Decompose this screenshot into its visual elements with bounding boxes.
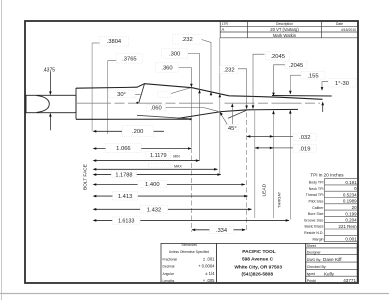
- svg-text:.334: .334: [216, 228, 228, 234]
- svg-text:BOLT FACE: BOLT FACE: [83, 164, 89, 190]
- svg-text:Checked By:: Checked By:: [307, 265, 327, 269]
- svg-text:1.400: 1.400: [145, 182, 160, 188]
- svg-text:.300: .300: [169, 52, 180, 58]
- svg-text:.2045: .2045: [289, 63, 304, 69]
- svg-text:A: A: [222, 27, 225, 32]
- svg-text:0.5234: 0.5234: [343, 192, 357, 197]
- svg-text:Description: Description: [276, 22, 293, 26]
- svg-text:.060: .060: [150, 106, 161, 112]
- svg-text:Sheet: Sheet: [307, 244, 316, 248]
- svg-text:Groove Size: Groove Size: [304, 218, 324, 222]
- svg-text:30°: 30°: [117, 92, 126, 98]
- svg-text:.3804: .3804: [107, 39, 122, 45]
- svg-text:.360: .360: [161, 65, 172, 71]
- svg-text:4/15/2010: 4/15/2010: [341, 28, 356, 32]
- svg-text:.232: .232: [181, 37, 192, 43]
- svg-text:.032: .032: [299, 135, 310, 141]
- svg-text:20 VT (Vartarg): 20 VT (Vartarg): [270, 27, 299, 32]
- svg-text:LEAD: LEAD: [262, 183, 268, 196]
- svg-text:Bore Size: Bore Size: [308, 212, 324, 216]
- svg-text:.232: .232: [223, 67, 234, 73]
- svg-text:1°-30: 1°-30: [335, 81, 349, 87]
- svg-text:Thread TPI: Thread TPI: [306, 193, 324, 197]
- svg-text:+ 0.0004: + 0.0004: [198, 264, 215, 269]
- svg-text:Unless Otherwise Specified: Unless Otherwise Specified: [169, 250, 209, 254]
- svg-text:0.1989: 0.1989: [343, 199, 357, 204]
- svg-text:± 1/4: ± 1/4: [205, 271, 215, 276]
- svg-text:1.1179: 1.1179: [150, 153, 167, 159]
- svg-text:.4375: .4375: [43, 67, 56, 73]
- svg-text:.155: .155: [307, 73, 318, 79]
- svg-text:Neck TPI: Neck TPI: [309, 187, 324, 191]
- svg-text:Caliber: Caliber: [312, 206, 324, 210]
- svg-text:0.191: 0.191: [345, 180, 357, 185]
- svg-text:Date: Date: [336, 22, 343, 26]
- svg-text:Fractional: Fractional: [163, 257, 178, 261]
- svg-text:DWG By:: DWG By:: [307, 258, 322, 262]
- svg-text:1.6133: 1.6133: [118, 219, 135, 225]
- svg-text:Decimal: Decimal: [163, 265, 175, 269]
- svg-text:43771: 43771: [343, 278, 356, 283]
- svg-text:TPI in 20 Inches: TPI in 20 Inches: [310, 173, 344, 178]
- svg-text:Print#: Print#: [307, 279, 316, 283]
- svg-text:221 Rem: 221 Rem: [338, 224, 357, 229]
- svg-text:Lengths: Lengths: [163, 279, 175, 283]
- svg-text:MIN: MIN: [173, 155, 180, 159]
- svg-text:(541)826-5808: (541)826-5808: [242, 272, 274, 278]
- svg-text:1.413: 1.413: [118, 194, 133, 200]
- svg-text:PACIFIC TOOL: PACIFIC TOOL: [242, 249, 275, 255]
- svg-text:45°: 45°: [228, 126, 237, 132]
- svg-text:THROAT: THROAT: [277, 191, 282, 208]
- svg-text:1.432: 1.432: [147, 207, 162, 213]
- svg-text:0.199: 0.199: [345, 211, 357, 216]
- svg-text:598 Avenue C: 598 Avenue C: [242, 256, 274, 262]
- svg-text:MAX: MAX: [174, 165, 182, 169]
- svg-text:Tolerances: Tolerances: [181, 243, 197, 247]
- svg-text:20: 20: [352, 205, 358, 210]
- svg-text:+ .005: + .005: [203, 278, 215, 283]
- svg-text:LTR: LTR: [222, 22, 229, 26]
- svg-text:Basic Brass: Basic Brass: [305, 225, 324, 229]
- svg-text:.200: .200: [132, 129, 143, 135]
- svg-text:Angular: Angular: [163, 272, 175, 276]
- svg-text:.019: .019: [299, 147, 310, 153]
- svg-text:0.204: 0.204: [345, 218, 357, 223]
- svg-text:typed: typed: [307, 272, 316, 276]
- svg-text:Margin: Margin: [313, 237, 324, 241]
- svg-text:Body TPI: Body TPI: [309, 181, 324, 185]
- svg-text:Kelly: Kelly: [324, 272, 335, 277]
- svg-text:Pilot Size: Pilot Size: [309, 200, 324, 204]
- svg-text:1.1788: 1.1788: [115, 172, 132, 178]
- svg-text:White City, OR 97503: White City, OR 97503: [234, 264, 282, 270]
- svg-text:.3765: .3765: [122, 56, 137, 62]
- svg-text:Reside N.D.: Reside N.D.: [304, 231, 323, 235]
- svg-text:.2045: .2045: [270, 54, 285, 60]
- svg-text:0.001: 0.001: [345, 237, 357, 242]
- svg-text:Dave Kiff: Dave Kiff: [323, 257, 342, 262]
- svg-text:± .001: ± .001: [203, 256, 215, 261]
- svg-text:Designer: Designer: [307, 251, 322, 255]
- svg-text:Mark Watkin: Mark Watkin: [273, 33, 297, 38]
- svg-text:1.066: 1.066: [116, 146, 131, 152]
